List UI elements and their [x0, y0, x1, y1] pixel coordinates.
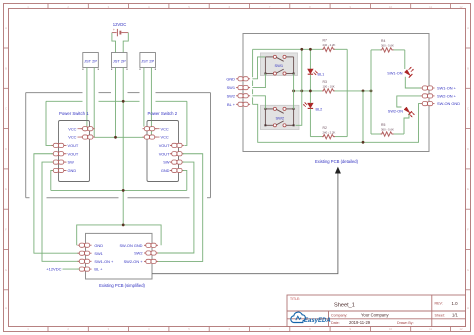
label Existing PCB simplified [99, 283, 145, 288]
wire JST3 pin2 to VCC bus [150, 68, 152, 136]
svg-text:4: 4 [148, 327, 150, 331]
svg-text:Sheet_1: Sheet_1 [334, 303, 355, 309]
wire R4 to SW1-ON LED [404, 50, 406, 69]
wire PS1 VOUT2 to SW1 pin [34, 154, 80, 253]
wire bus to PS2 VOUT1 [184, 101, 187, 145]
svg-text:VOUT: VOUT [159, 151, 170, 156]
LED BL1 [308, 69, 318, 75]
label R2 [323, 126, 336, 135]
resistor R4 [381, 48, 394, 52]
junction bus right ladder [370, 90, 373, 93]
svg-text:SW2-ON: SW2-ON [388, 110, 403, 114]
svg-text:7: 7 [269, 327, 271, 331]
svg-text:REV:: REV: [435, 302, 443, 306]
svg-text:R2: R2 [323, 126, 327, 130]
svg-text:2019-11-29: 2019-11-29 [349, 320, 371, 325]
Sheet 1/1 cell [435, 313, 459, 318]
svg-text:JST 2P: JST 2P [141, 58, 154, 63]
svg-text:B: B [5, 66, 7, 70]
svg-text:D: D [5, 147, 7, 151]
svg-text:+: + [113, 28, 115, 32]
EasyEDA logo [291, 312, 331, 324]
wire +12VDC to BL+ pin [63, 268, 80, 270]
wire middle bus left [294, 90, 323, 92]
svg-text:SW-ON GND: SW-ON GND [437, 101, 460, 106]
connector J2 JST 2P [111, 53, 128, 70]
switch SW1 shaded box [260, 53, 297, 76]
module U1 Power Switch 1 box [59, 121, 90, 182]
svg-text:10: 10 [389, 327, 393, 331]
svg-text:JST 2P: JST 2P [113, 58, 126, 63]
svg-text:SW: SW [68, 160, 75, 165]
svg-text:VCC: VCC [68, 135, 76, 140]
label SW1 [274, 63, 283, 68]
LED SW2-ON [404, 107, 415, 117]
svg-text:Existing PCB (detailed): Existing PCB (detailed) [315, 159, 359, 164]
wire R4 rail [371, 49, 405, 51]
label R7 [323, 39, 336, 48]
switch SW1 pole B [264, 69, 294, 75]
svg-text:11: 11 [429, 327, 432, 331]
sheet title Sheet_1 [334, 303, 355, 309]
svg-text:G: G [467, 268, 469, 272]
wire R2 rail [310, 136, 347, 138]
wire SW1-ON LED to pin [405, 77, 420, 88]
module U2 Power Switch 2 box [147, 121, 179, 182]
label SW2 [275, 115, 284, 120]
label Existing PCB detailed [315, 159, 359, 164]
svg-text:SW1: SW1 [274, 63, 283, 68]
wire PS1 GND down [51, 170, 53, 190]
svg-text:SW1-ON +: SW1-ON + [437, 86, 457, 91]
svg-text:12: 12 [459, 5, 463, 9]
svg-text:SW1: SW1 [227, 85, 235, 90]
wire top rail left [253, 48, 323, 50]
svg-text:360 - 5.6K: 360 - 5.6K [381, 128, 394, 132]
wire JST2 pin2 GND spine [122, 68, 124, 225]
svg-text:D: D [467, 147, 469, 151]
U2 pins VCC VCC VOUT VOUT SW GND [143, 126, 184, 173]
LED BL2 [303, 102, 313, 108]
wire BL2 to R2 rail [309, 109, 311, 137]
battery BT1 12VDC [112, 28, 128, 36]
svg-text:E: E [467, 187, 469, 191]
svg-text:10: 10 [389, 5, 393, 9]
switch SW2 shaded box [260, 105, 299, 129]
wire BL chain top [309, 49, 311, 69]
resistor R2 [322, 134, 335, 138]
svg-text:Date:: Date: [331, 321, 340, 325]
svg-text:8: 8 [309, 327, 311, 331]
svg-text:B: B [467, 66, 469, 70]
svg-text:SW2: SW2 [227, 93, 235, 98]
wire PS1 SW to SW1-ON pin [42, 162, 79, 261]
LED SW1-ON [405, 67, 414, 78]
svg-text:JST 2P: JST 2P [84, 58, 97, 63]
wire bus to BL2 [309, 91, 311, 103]
wire GND bracket [77, 225, 161, 245]
svg-text:A: A [5, 26, 7, 30]
wire rail to SW2 poleB [296, 49, 302, 125]
REV label [435, 301, 459, 306]
svg-text:9: 9 [349, 327, 351, 331]
svg-text:F: F [5, 227, 7, 231]
wire SW2-ON pin to LED [397, 96, 421, 107]
switch SW1 side bars [265, 57, 293, 74]
wire ladder right v3 [346, 49, 348, 136]
wire BL1 to bus [309, 74, 311, 91]
connector J1 JST 2P [82, 53, 99, 70]
svg-text:Sheet:: Sheet: [435, 313, 445, 317]
svg-text:TITLE:: TITLE: [290, 297, 300, 301]
title label [290, 297, 300, 301]
gray group outline around power switches [26, 93, 211, 198]
wire BL+ riser v1 [252, 49, 254, 104]
svg-text:SW2-ON +: SW2-ON + [124, 259, 144, 264]
svg-text:H: H [467, 306, 469, 310]
svg-text:BL1: BL1 [318, 73, 325, 77]
svg-text:F: F [467, 227, 469, 231]
wire JST3 pin1 to PS2 VCC1 [143, 68, 145, 127]
wire JST2 pin1 to VCC bus junction [115, 68, 117, 138]
U4 left pins GND SW1 SW2 BL+ [226, 76, 250, 107]
label R4 [381, 39, 394, 48]
label R3 [323, 80, 335, 89]
svg-text:240 - 2.2K: 240 - 2.2K [323, 130, 336, 134]
annotation arrow to detailed PCB [152, 167, 341, 274]
svg-text:SW1-ON: SW1-ON [387, 72, 402, 76]
wire battery- to JST2 pin2 [123, 33, 128, 53]
wire BL+ pin to bottom rail [252, 104, 420, 143]
svg-text:R7: R7 [323, 39, 327, 43]
label 12VDC [113, 22, 127, 27]
svg-text:SW2: SW2 [134, 251, 142, 256]
module U3 Existing PCB simplified box [86, 233, 153, 279]
Company row [331, 313, 389, 318]
junction bus BL chain [309, 90, 312, 93]
svg-text:Drawn By:: Drawn By: [397, 321, 414, 325]
svg-text:VOUT: VOUT [68, 151, 79, 156]
svg-text:12VDC: 12VDC [113, 22, 127, 27]
label SW1-ON [387, 72, 402, 76]
svg-text:1.0: 1.0 [452, 301, 459, 306]
wire JST1 pin1 to PS1 VCC1 [86, 68, 88, 127]
net label +12VDC [46, 267, 61, 272]
svg-text:BL +: BL + [94, 267, 103, 272]
svg-text:SW1-ON +: SW1-ON + [94, 259, 114, 264]
svg-text:A: A [467, 26, 469, 30]
svg-text:12: 12 [459, 327, 463, 331]
svg-text:1: 1 [27, 327, 29, 331]
switch SW2 pole B [264, 121, 294, 127]
wire GND bus top [46, 100, 187, 102]
junction BL+ rail drop [362, 141, 365, 144]
svg-text:100 - 10K: 100 - 10K [323, 85, 335, 89]
svg-text:GND: GND [94, 243, 103, 248]
label BL1 [318, 73, 325, 77]
svg-text:Existing PCB (simplified): Existing PCB (simplified) [99, 283, 145, 288]
svg-text:360 - 5.6K: 360 - 5.6K [381, 44, 394, 48]
svg-text:E: E [5, 187, 7, 191]
wire middle bus right [335, 90, 372, 92]
wire GND pin to SW1 pole A [252, 57, 265, 79]
wire battery+ to JST2 pin1 [112, 33, 116, 53]
wire PS2 SW to SW2 pin [158, 162, 194, 253]
svg-text:GND: GND [68, 168, 77, 173]
svg-text:R4: R4 [381, 39, 385, 43]
wire SW2-ON LED to R5 [404, 114, 409, 134]
svg-text:+12VDC: +12VDC [46, 267, 61, 272]
junction GND spine / bracket [122, 224, 125, 227]
svg-text:11: 11 [429, 5, 432, 9]
wire SW1 poleB to SW2 poleA common [293, 74, 295, 109]
junction BL chain / top rail [309, 48, 312, 51]
switch SW2 pole A [264, 107, 294, 113]
svg-text:GND: GND [161, 168, 170, 173]
svg-text:Company:: Company: [331, 313, 347, 317]
svg-text:G: G [5, 268, 7, 272]
svg-text:BL2: BL2 [316, 108, 323, 112]
svg-text:SW2: SW2 [275, 115, 284, 120]
svg-text:BL +: BL + [227, 102, 236, 107]
svg-text:GND: GND [226, 76, 235, 81]
resistor R3 [322, 89, 335, 93]
junction GND bus / JST2 pin2 [122, 100, 125, 103]
svg-text:SW-ON GND: SW-ON GND [119, 243, 142, 248]
junction bus rail2 [300, 90, 303, 93]
title block frame [287, 295, 466, 327]
wire right ladder left v [370, 50, 372, 134]
switch SW2 side bars [265, 109, 293, 125]
Date row [331, 320, 414, 325]
wire bus drop to BL+ rail [362, 91, 364, 142]
svg-text:C: C [5, 107, 7, 111]
svg-text:Power Switch 1: Power Switch 1 [59, 111, 89, 116]
wire PS2 GND down [183, 170, 187, 190]
label Power Switch 2 [148, 111, 178, 116]
svg-text:VOUT: VOUT [68, 143, 79, 148]
junction VCC bus / JST2 pin1 [114, 136, 117, 139]
svg-text:SW1: SW1 [94, 251, 102, 256]
U3 left pins GND SW1 SW1-ON+ BL+ [78, 243, 115, 272]
svg-text:SW2-ON +: SW2-ON + [437, 94, 457, 99]
svg-text:SW: SW [163, 160, 170, 165]
wire bus to PS1 VOUT1 [46, 101, 53, 145]
svg-text:H: H [5, 306, 7, 310]
junction GND lower bus [122, 189, 125, 192]
svg-text:3: 3 [108, 327, 110, 331]
resistor R7 [322, 47, 335, 51]
junction bus drop [362, 90, 365, 93]
svg-text:2: 2 [67, 327, 69, 331]
svg-text:Power Switch 2: Power Switch 2 [148, 111, 178, 116]
svg-text:5: 5 [188, 327, 190, 331]
svg-text:6: 6 [229, 327, 231, 331]
junction bus SW1 common [292, 90, 295, 93]
svg-text:VCC: VCC [161, 135, 169, 140]
U4 right pins SW1-ON+ SW2-ON+ SW-ON-GND [421, 86, 461, 107]
wire VCC bus [94, 136, 144, 138]
wire PS2 VOUT2 to SW2-ON pin [158, 154, 203, 262]
label R5 [381, 123, 394, 132]
label BL2 [316, 108, 323, 112]
wire JST1 pin2 to VCC bus [93, 68, 95, 138]
connector J3 JST 2P [139, 53, 156, 70]
U1 pins VCC VCC VOUT VOUT SW GND [52, 126, 95, 173]
wire SW1 pin to SW1 pole B [252, 74, 265, 88]
svg-text:Your Company: Your Company [361, 313, 389, 318]
switch SW1 pole A [265, 55, 293, 61]
svg-text:240 - 2.2K: 240 - 2.2K [323, 43, 336, 47]
wire R5 rail [371, 133, 404, 135]
svg-text:VOUT: VOUT [159, 143, 170, 148]
svg-text:R5: R5 [381, 123, 385, 127]
svg-text:EasyEDA: EasyEDA [304, 318, 331, 324]
svg-text:VCC: VCC [161, 126, 169, 131]
label SW2-ON [388, 110, 403, 114]
resistor R5 [381, 132, 394, 136]
module U4 Existing PCB detailed box [243, 34, 429, 152]
svg-text:1/1: 1/1 [452, 313, 458, 318]
junction top rail x301 [300, 48, 303, 51]
svg-text:C: C [467, 107, 469, 111]
wire top rail right [335, 48, 348, 50]
label Power Switch 1 [59, 111, 89, 116]
U3 right pins SW-ON-GND SW2 SW2-ON+ [119, 243, 158, 264]
wire GND bus lower [51, 189, 187, 191]
svg-text:VCC: VCC [68, 126, 76, 131]
svg-text:R3: R3 [323, 80, 327, 84]
wire SW2 pin to SW2 pole A [252, 96, 265, 109]
